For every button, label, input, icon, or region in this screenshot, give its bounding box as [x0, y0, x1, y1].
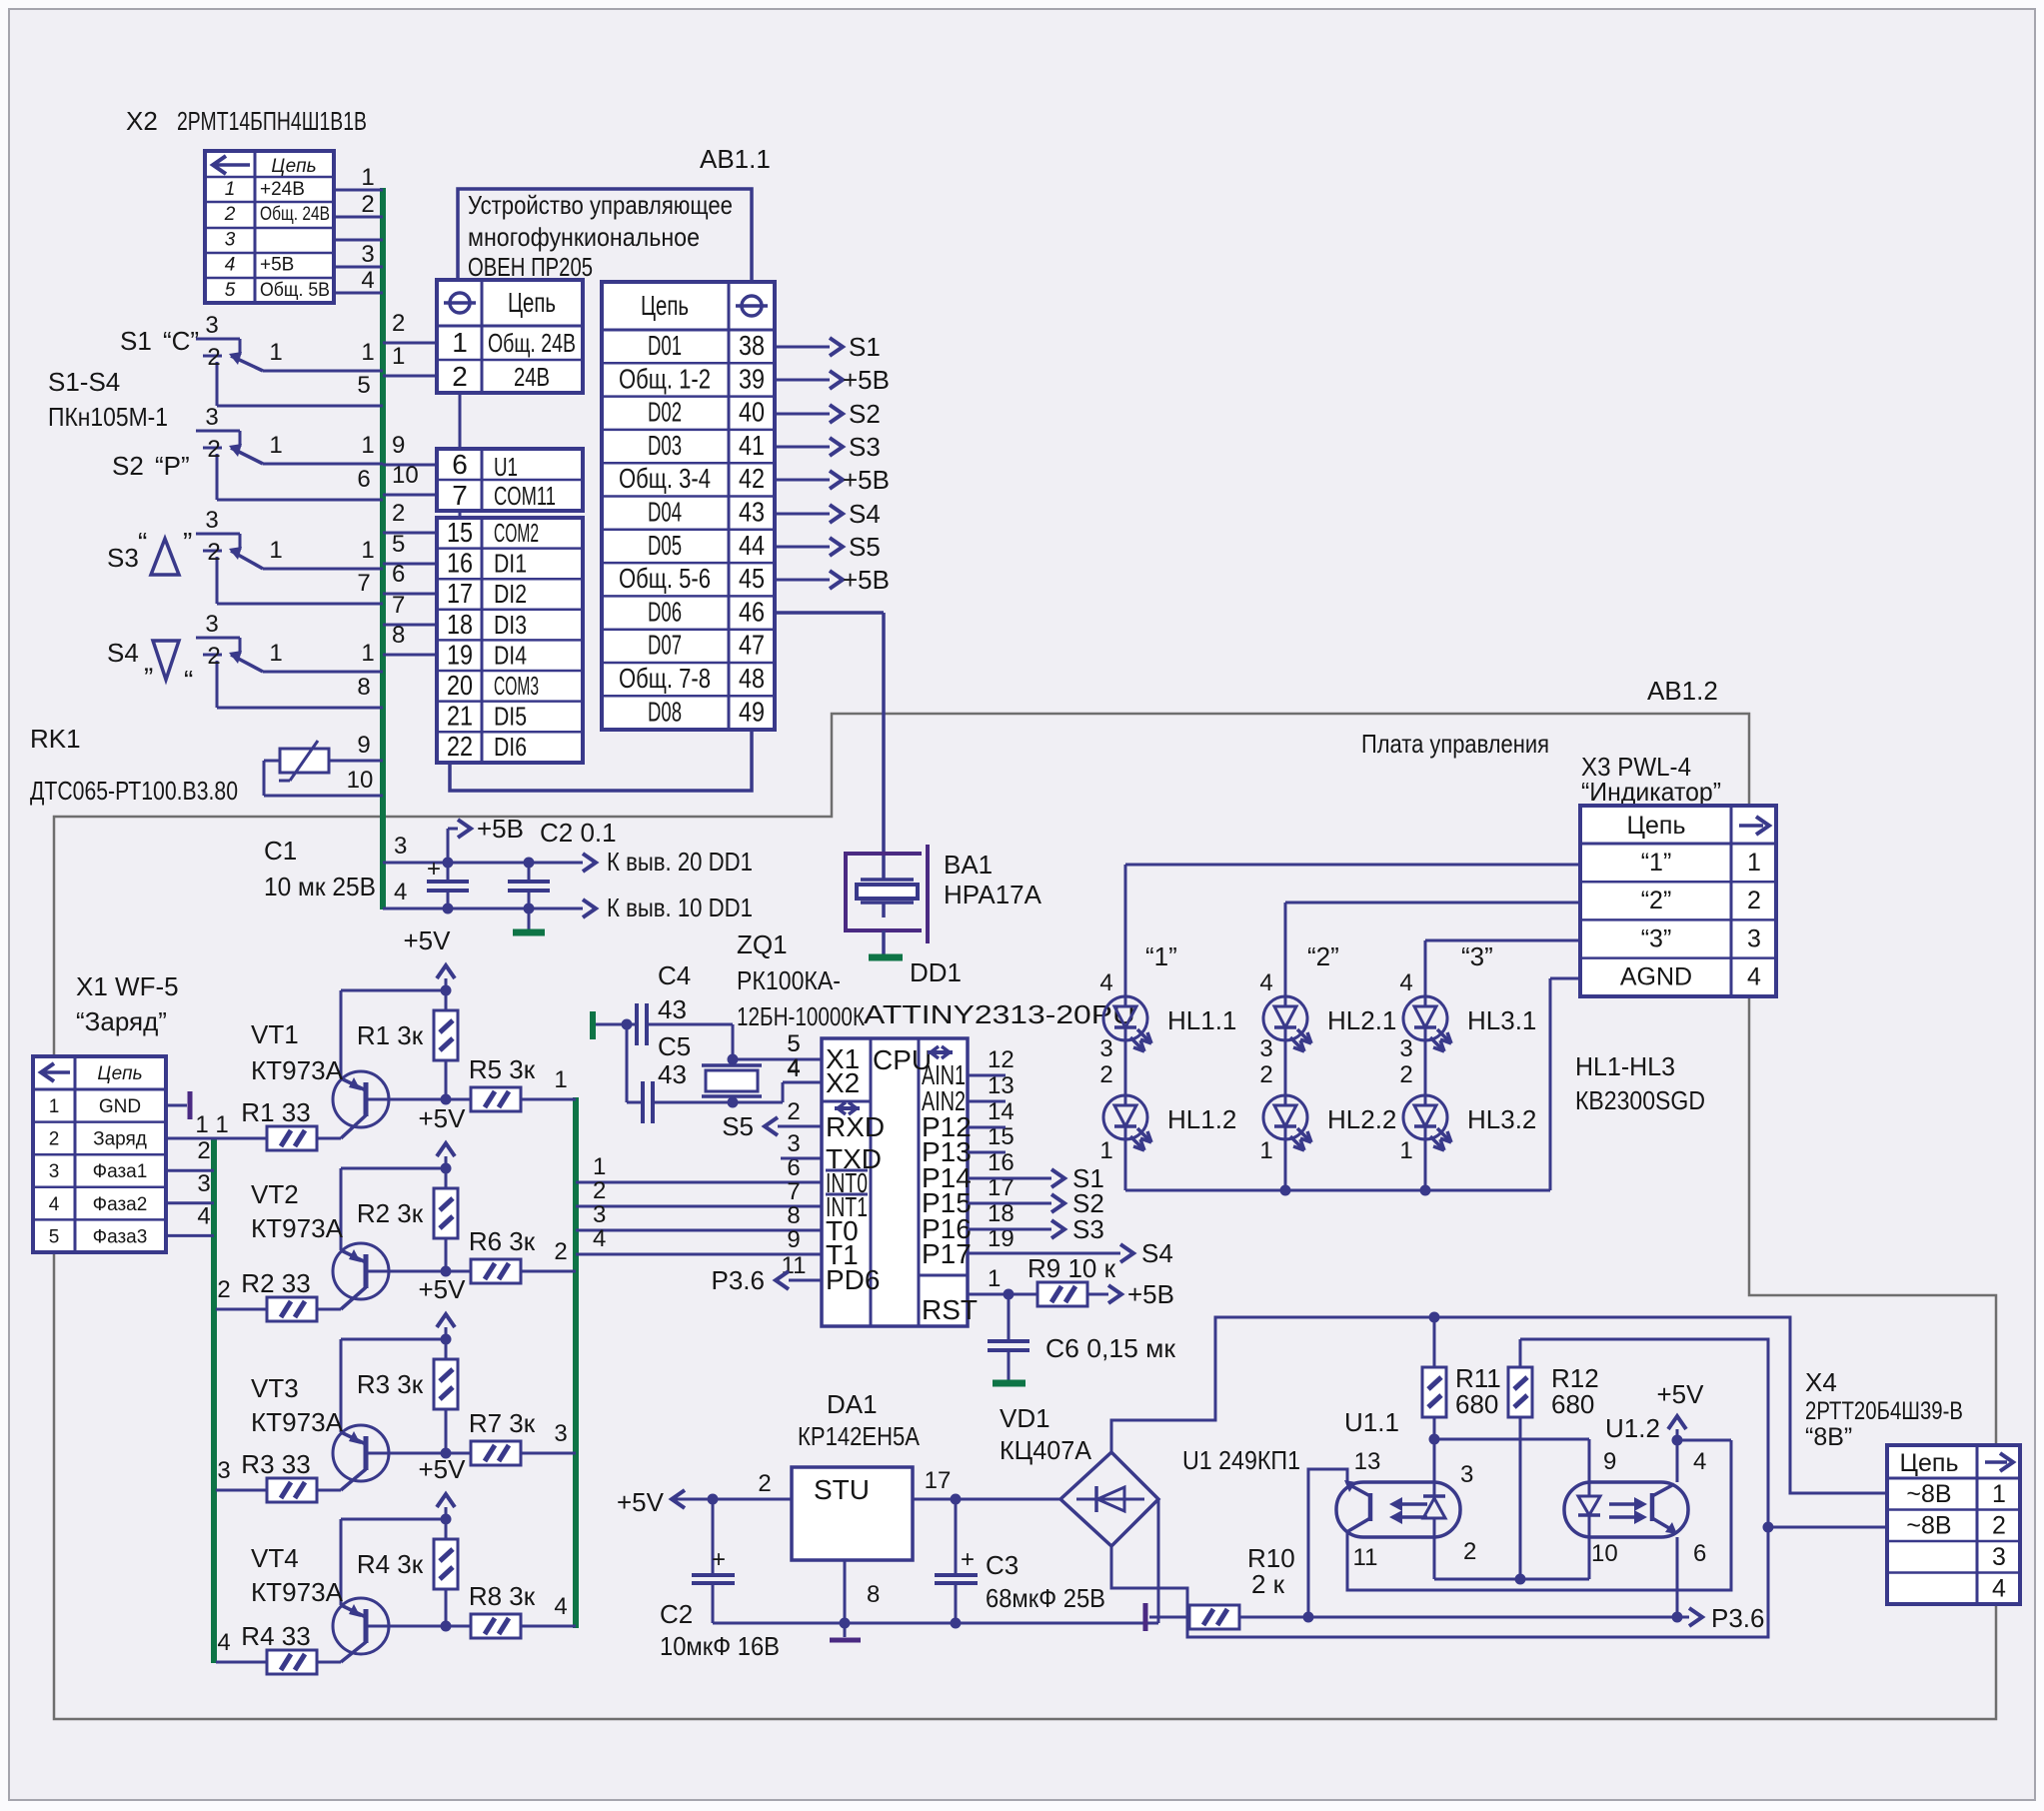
LED HL3.2 — [1403, 1095, 1447, 1139]
svg-text:ATTINY2313-20PU: ATTINY2313-20PU — [864, 999, 1135, 1029]
svg-text:“3”: “3” — [1641, 924, 1672, 952]
svg-text:Заряд: Заряд — [93, 1129, 147, 1150]
svg-text:R1 3к: R1 3к — [357, 1020, 424, 1050]
S3 up-triangle symbol — [151, 539, 179, 575]
svg-text:U1.1: U1.1 — [1344, 1407, 1399, 1437]
svg-text:КР142ЕН5А: КР142ЕН5А — [798, 1421, 921, 1451]
svg-text:S3: S3 — [849, 432, 881, 462]
svg-text:4: 4 — [1693, 1448, 1706, 1475]
svg-text:2 к: 2 к — [1251, 1569, 1285, 1599]
svg-text:3: 3 — [205, 404, 218, 431]
wire X1 GND pin 1 — [166, 1104, 187, 1107]
svg-text:3: 3 — [1992, 1543, 2006, 1571]
LED HL2.2 — [1263, 1095, 1307, 1139]
DA1 pin 8 to ground — [844, 1560, 847, 1623]
svg-text:R2 33: R2 33 — [241, 1268, 310, 1298]
+5V arrow (U1.2) — [1676, 1429, 1679, 1440]
svg-text:VT4: VT4 — [251, 1543, 299, 1573]
svg-text:R4 3к: R4 3к — [357, 1549, 424, 1579]
svg-text:10 мк 25В: 10 мк 25В — [264, 872, 376, 902]
resistor R1 3к (pull-up) — [445, 990, 448, 1010]
capacitor C2 10мкФ 16В — [712, 1499, 715, 1573]
svg-text:24В: 24В — [514, 362, 550, 392]
svg-text:3: 3 — [1399, 1035, 1412, 1062]
svg-text:2: 2 — [207, 344, 220, 371]
LED column 1 vertical wires — [1124, 1040, 1127, 1095]
svg-text:5: 5 — [392, 531, 405, 558]
svg-text:DI4: DI4 — [494, 640, 527, 670]
svg-text:DA1: DA1 — [827, 1389, 878, 1419]
svg-text:2: 2 — [392, 500, 405, 527]
svg-text:3: 3 — [205, 312, 218, 339]
svg-text:HL1-HL3: HL1-HL3 — [1575, 1051, 1675, 1081]
svg-text:10: 10 — [392, 462, 419, 489]
svg-text:HL3.1: HL3.1 — [1467, 1005, 1536, 1035]
svg-text:Р3.6: Р3.6 — [712, 1265, 766, 1295]
svg-text:S4: S4 — [849, 499, 881, 529]
svg-text:D07: D07 — [648, 630, 682, 661]
svg-text:AB1.2: AB1.2 — [1647, 676, 1718, 706]
LED HL1.1 — [1103, 996, 1147, 1040]
svg-text:COM11: COM11 — [494, 481, 556, 511]
svg-text:ZQ1: ZQ1 — [737, 929, 788, 959]
svg-text:DI3: DI3 — [494, 610, 527, 640]
wire DA1 pin17 to bridge — [913, 1498, 1060, 1501]
switch S1 — [196, 338, 240, 341]
svg-text:S2: S2 — [112, 451, 144, 481]
wire RK1 pin 10 to bus — [263, 761, 266, 796]
X2 header arrow — [216, 163, 250, 167]
link wire between tables — [459, 393, 462, 449]
svg-text:3: 3 — [205, 611, 218, 638]
svg-text:2: 2 — [207, 539, 220, 566]
svg-text:X2: X2 — [126, 106, 158, 136]
svg-text:42: 42 — [739, 463, 765, 494]
svg-text:680: 680 — [1455, 1389, 1498, 1419]
svg-text:VD1: VD1 — [1000, 1403, 1050, 1433]
svg-text:2: 2 — [224, 204, 236, 225]
LED designator labels — [1145, 941, 1536, 1134]
AC leg A: bridge top to X4 pin 1 — [1111, 1317, 1887, 1493]
+5В tap arrow — [447, 829, 450, 863]
svg-text:D05: D05 — [648, 530, 682, 561]
svg-text:RK1: RK1 — [30, 724, 81, 754]
svg-text:R5 3к: R5 3к — [469, 1054, 536, 1084]
svg-text:Цепь: Цепь — [1627, 812, 1686, 840]
svg-text:КТ973А: КТ973А — [251, 1407, 344, 1437]
svg-text:2: 2 — [758, 1470, 771, 1497]
svg-text:1: 1 — [269, 537, 282, 564]
svg-text:С5: С5 — [658, 1031, 691, 1061]
svg-text:VT2: VT2 — [251, 1179, 299, 1209]
svg-text:1: 1 — [361, 339, 374, 366]
svg-text:2: 2 — [197, 1137, 210, 1164]
svg-text:S5: S5 — [722, 1111, 754, 1141]
svg-text:многофункиональное: многофункиональное — [468, 222, 700, 252]
svg-text:4: 4 — [787, 1054, 800, 1081]
svg-text:R3 3к: R3 3к — [357, 1369, 424, 1399]
S4 down-triangle symbol — [153, 641, 179, 680]
switch S4 — [196, 637, 240, 640]
svg-text:4: 4 — [1399, 969, 1412, 996]
svg-text:+5В: +5В — [843, 565, 890, 595]
LED HL3.1 — [1403, 996, 1447, 1040]
svg-text:VT1: VT1 — [251, 1019, 299, 1049]
svg-text:AGND: AGND — [1620, 963, 1692, 991]
svg-text:BA1: BA1 — [944, 850, 993, 880]
svg-text:1: 1 — [392, 343, 405, 370]
svg-text:1: 1 — [554, 1066, 567, 1093]
svg-text:Цепь: Цепь — [271, 156, 316, 177]
svg-text:U1.2: U1.2 — [1605, 1413, 1660, 1443]
PD6 wire to Р3.6 — [789, 1279, 822, 1282]
svg-text:VT3: VT3 — [251, 1373, 299, 1403]
svg-text:4: 4 — [394, 879, 407, 905]
svg-text:“1”: “1” — [1145, 941, 1177, 971]
svg-text:D03: D03 — [648, 430, 682, 461]
svg-text:RST: RST — [922, 1294, 978, 1325]
svg-text:8: 8 — [787, 1202, 800, 1229]
svg-text:6: 6 — [452, 449, 468, 480]
svg-text:5: 5 — [49, 1226, 60, 1247]
capacitor C1 (electrolytic) — [443, 858, 454, 869]
AC leg B: bridge bottom to X4 pin 2 / R12 — [1111, 1339, 1768, 1637]
svg-text:КЦ407А: КЦ407А — [1000, 1435, 1092, 1465]
svg-text:2: 2 — [452, 361, 468, 392]
svg-text:Общ. 5-6: Общ. 5-6 — [619, 563, 711, 594]
transistor VT4 КТ973А — [333, 1598, 389, 1654]
svg-text:13: 13 — [1354, 1448, 1381, 1475]
svg-text:10: 10 — [347, 767, 374, 794]
svg-text:45: 45 — [739, 563, 765, 594]
svg-text:2: 2 — [1747, 887, 1761, 914]
svg-text:3: 3 — [394, 833, 407, 860]
svg-text:7: 7 — [392, 592, 405, 619]
connector X4 table — [1887, 1445, 2020, 1604]
svg-text:ОВЕН ПР205: ОВЕН ПР205 — [468, 252, 593, 282]
svg-text:+5В: +5В — [1127, 1279, 1174, 1309]
svg-text:S4: S4 — [1141, 1238, 1173, 1268]
svg-text:5: 5 — [225, 280, 236, 301]
wire RK1 pin 9 to bus — [329, 760, 383, 763]
svg-text:2: 2 — [554, 1238, 567, 1265]
AIN/P1x stubs — [968, 1074, 1006, 1077]
resistor R4 3к (pull-up) — [445, 1519, 448, 1539]
bus exit wires to OVEN PR205 — [383, 342, 437, 345]
svg-text:1: 1 — [361, 164, 374, 191]
svg-text:1: 1 — [225, 179, 236, 200]
svg-text:“2”: “2” — [1641, 887, 1672, 914]
svg-text:17: 17 — [447, 578, 473, 609]
svg-text:+5V: +5V — [1657, 1379, 1705, 1409]
TXD stub — [781, 1157, 822, 1160]
PR205 output table (pins 38-49) — [602, 282, 775, 730]
wire R10 to Р3.6 arrow — [1308, 1616, 1662, 1619]
svg-text:12БН-10000К: 12БН-10000К — [737, 1001, 865, 1031]
svg-text:2: 2 — [593, 1177, 606, 1204]
svg-text:“С”: “С” — [163, 326, 199, 356]
svg-text:HL1.1: HL1.1 — [1167, 1005, 1236, 1035]
svg-text:1: 1 — [1259, 1137, 1272, 1164]
capacitor C2 — [524, 858, 535, 869]
resistor R11 680 — [1433, 1317, 1436, 1367]
svg-text:2: 2 — [1399, 1061, 1412, 1088]
chassis ground bar (X1 GND) — [188, 1091, 193, 1119]
svg-text:R6 3к: R6 3к — [469, 1226, 536, 1256]
svg-text:HL2.1: HL2.1 — [1327, 1005, 1396, 1035]
svg-text:Плата управления: Плата управления — [1361, 729, 1549, 759]
svg-text:R3 33: R3 33 — [241, 1449, 310, 1479]
svg-text:C2: C2 — [660, 1599, 693, 1629]
svg-text:DI2: DI2 — [494, 579, 527, 609]
wire ZQ1 to X1 pin — [733, 1058, 822, 1061]
connector X1 table — [33, 1056, 166, 1252]
svg-text:S3: S3 — [1072, 1214, 1104, 1244]
wire harness bus 3 (VT outputs to CPU) — [573, 1097, 579, 1628]
svg-text:16: 16 — [447, 548, 473, 579]
svg-text:1: 1 — [1099, 1137, 1112, 1164]
ground (buzzer) — [869, 954, 903, 961]
LED column 2 vertical wires — [1284, 1040, 1287, 1095]
wire D06 pin46 to buzzer BA1 — [775, 611, 884, 615]
PR205 input terminal table (pins 15-22) — [437, 518, 583, 763]
svg-text:41: 41 — [739, 430, 765, 461]
svg-text:Цепь: Цепь — [97, 1063, 142, 1084]
wire net 3 (+5В) from bus — [383, 862, 583, 865]
CPU left pin names — [826, 1043, 885, 1295]
LED HL2.1 — [1263, 996, 1307, 1040]
svg-text:К выв. 20 DD1: К выв. 20 DD1 — [607, 847, 753, 877]
svg-text:9: 9 — [787, 1226, 800, 1253]
svg-text:3: 3 — [1460, 1461, 1473, 1488]
svg-text:С6 0,15 мк: С6 0,15 мк — [1045, 1333, 1176, 1363]
X2 wires to bus — [334, 189, 383, 192]
wire harness bus 1 (X2/switch area) — [380, 188, 386, 909]
switch S2 — [196, 430, 240, 433]
bus 3 exit wires to CPU INT0,INT1,T0,T1 — [576, 1181, 822, 1184]
resistor R6 3к (output) — [471, 1259, 521, 1283]
svg-text:12: 12 — [988, 1046, 1015, 1073]
svg-text:20: 20 — [447, 670, 473, 701]
svg-text:R4 33: R4 33 — [241, 1621, 310, 1651]
AB1.2 control-board boundary — [54, 714, 1996, 1719]
svg-text:С2 0.1: С2 0.1 — [540, 818, 617, 848]
svg-text:РК100КА-: РК100КА- — [737, 965, 841, 995]
thermistor RK1 — [280, 749, 329, 773]
svg-text:2: 2 — [787, 1098, 800, 1125]
svg-text:S4: S4 — [107, 638, 139, 668]
svg-text:3: 3 — [593, 1201, 606, 1228]
svg-text:COM3: COM3 — [494, 671, 539, 701]
link wire between tables — [459, 511, 462, 518]
svg-text:48: 48 — [739, 663, 765, 694]
svg-text:R9 10 к: R9 10 к — [1027, 1253, 1116, 1283]
svg-text:STU: STU — [814, 1474, 870, 1505]
transistor VT2 КТ973А — [333, 1243, 389, 1299]
svg-text:19: 19 — [447, 639, 473, 670]
LED column 3 vertical wires — [1424, 1040, 1427, 1095]
svg-text:1: 1 — [269, 432, 282, 459]
svg-text:3: 3 — [217, 1457, 230, 1484]
svg-text:R1 33: R1 33 — [241, 1097, 310, 1127]
CPU DD1 box — [822, 1038, 968, 1326]
svg-text:Цепь: Цепь — [641, 290, 689, 321]
svg-text:38: 38 — [739, 330, 765, 361]
svg-text:D06: D06 — [648, 596, 682, 627]
svg-text:+5V: +5V — [419, 1454, 467, 1484]
svg-text:9: 9 — [357, 732, 370, 759]
svg-text:2: 2 — [1099, 1061, 1112, 1088]
wires X1 phases to bus 2 — [166, 1169, 214, 1172]
svg-text:7: 7 — [787, 1178, 800, 1205]
svg-text:1: 1 — [361, 537, 374, 564]
svg-text:2РТТ20Б4Ш39-В: 2РТТ20Б4Ш39-В — [1805, 1397, 1963, 1425]
svg-text:D08: D08 — [648, 696, 682, 727]
U1.2 pin4 to +5V — [1676, 1440, 1679, 1482]
svg-text:4: 4 — [1099, 969, 1112, 996]
svg-text:4: 4 — [361, 267, 374, 294]
svg-text:8: 8 — [392, 622, 405, 649]
svg-text:4: 4 — [1747, 963, 1761, 991]
U1.1 pin11 wire to +5V loop — [1347, 1440, 1731, 1590]
svg-text:”: ” — [183, 527, 192, 558]
svg-text:+5В: +5В — [843, 365, 890, 395]
svg-text:КВ2300SGD: КВ2300SGD — [1575, 1085, 1705, 1115]
svg-text:39: 39 — [739, 363, 765, 394]
LED HL1.2 — [1103, 1095, 1147, 1139]
svg-text:S1-S4: S1-S4 — [48, 367, 120, 397]
RXD wire to S5 — [778, 1125, 822, 1128]
+5V arrow (VT1 emitter) — [445, 978, 448, 990]
svg-text:D04: D04 — [648, 497, 682, 528]
svg-text:GND: GND — [99, 1096, 141, 1117]
svg-text:7: 7 — [452, 480, 468, 511]
svg-text:КТ973А: КТ973А — [251, 1055, 344, 1085]
svg-text:Фаза2: Фаза2 — [93, 1194, 148, 1215]
svg-text:+24В: +24В — [260, 179, 305, 200]
svg-text:Общ. 7-8: Общ. 7-8 — [619, 663, 711, 694]
svg-text:3: 3 — [1747, 924, 1761, 952]
capacitor C6 — [1008, 1294, 1011, 1341]
svg-text:DI1: DI1 — [494, 549, 527, 579]
U1.1 pin13 wire to R10 node — [1308, 1469, 1347, 1617]
svg-text:22: 22 — [447, 731, 473, 762]
svg-text:X2: X2 — [826, 1067, 860, 1098]
svg-text:15: 15 — [447, 517, 473, 548]
svg-text:Устройство управляющее: Устройство управляющее — [468, 190, 733, 220]
svg-text:“2”: “2” — [1307, 941, 1339, 971]
svg-text:“: “ — [138, 527, 147, 558]
resistor R2 33 (input) — [216, 1308, 267, 1311]
svg-text:“Р”: “Р” — [155, 451, 190, 481]
svg-text:~8В: ~8В — [1906, 1480, 1951, 1508]
svg-text:DI6: DI6 — [494, 732, 527, 762]
svg-text:R7 3к: R7 3к — [469, 1408, 536, 1438]
svg-text:„: „ — [144, 646, 153, 677]
svg-text:ДТС065-РТ100.В3.80: ДТС065-РТ100.В3.80 — [30, 776, 238, 806]
svg-text:2: 2 — [361, 191, 374, 218]
svg-text:+5В: +5В — [477, 814, 524, 844]
svg-text:21: 21 — [447, 701, 473, 732]
capacitor C4 — [596, 1023, 637, 1026]
svg-text:Общ. 3-4: Общ. 3-4 — [619, 463, 711, 494]
svg-text:НРА17А: НРА17А — [944, 880, 1042, 909]
svg-text:“8В”: “8В” — [1805, 1423, 1852, 1451]
regulator DA1 box — [792, 1467, 913, 1560]
svg-text:2: 2 — [1463, 1538, 1476, 1565]
svg-text:2: 2 — [392, 310, 405, 337]
svg-text:4: 4 — [217, 1629, 230, 1656]
switch S3 — [196, 533, 240, 536]
svg-text:4: 4 — [49, 1194, 60, 1215]
CPU right pin numbers — [988, 1046, 1015, 1292]
svg-text:Общ. 5В: Общ. 5В — [260, 280, 330, 301]
svg-text:+5V: +5V — [419, 1274, 467, 1304]
AGND return wire — [1550, 977, 1580, 980]
svg-text:1: 1 — [988, 1265, 1001, 1292]
svg-text:2: 2 — [1259, 1061, 1272, 1088]
svg-text:2: 2 — [207, 436, 220, 463]
svg-text:43: 43 — [739, 497, 765, 528]
svg-text:3: 3 — [361, 241, 374, 268]
svg-text:3: 3 — [554, 1420, 567, 1447]
svg-text:S1: S1 — [849, 332, 881, 362]
svg-text:4: 4 — [197, 1202, 210, 1229]
svg-text:1: 1 — [361, 432, 374, 459]
svg-text:“Заряд”: “Заряд” — [76, 1006, 167, 1036]
svg-text:U1: U1 — [494, 452, 518, 482]
svg-text:1: 1 — [269, 339, 282, 366]
P14..P16 wires to S1..S3 — [968, 1177, 1051, 1180]
svg-text:COM2: COM2 — [494, 518, 539, 548]
svg-text:Цепь: Цепь — [508, 287, 556, 318]
wire harness bus 2 (X1 phase lines) — [211, 1138, 217, 1663]
svg-text:2: 2 — [49, 1129, 60, 1150]
svg-text:680: 680 — [1551, 1389, 1594, 1419]
svg-text:D02: D02 — [648, 397, 682, 428]
wire U1.1 pin2 / R12 / U1.2 pin10 — [1434, 1578, 1589, 1581]
svg-text:S2: S2 — [849, 399, 881, 429]
svg-text:1: 1 — [215, 1111, 228, 1138]
svg-text:DI5: DI5 — [494, 702, 527, 732]
svg-text:Фаза1: Фаза1 — [93, 1161, 148, 1182]
svg-text:43: 43 — [658, 1059, 687, 1089]
svg-text:S1: S1 — [120, 326, 152, 356]
buzzer BA1 — [846, 854, 922, 930]
X2 pin numbers and circuit names — [224, 179, 330, 301]
wires X3 pins to LED columns — [1125, 864, 1580, 867]
ground (C6) — [993, 1380, 1025, 1387]
wire R11 node to U1.2 pin9 — [1434, 1438, 1589, 1441]
svg-text:4: 4 — [593, 1225, 606, 1252]
svg-text:R8 3к: R8 3к — [469, 1581, 536, 1611]
+5V arrow (VT4 emitter) — [445, 1507, 448, 1519]
resistor R5 3к (output) — [471, 1087, 521, 1111]
connector X3 table — [1580, 806, 1776, 996]
ground (C2) — [513, 929, 545, 936]
svg-text:5: 5 — [787, 1030, 800, 1057]
svg-text:44: 44 — [739, 530, 765, 561]
PR205 power terminal table (pins 1,2) — [437, 280, 583, 393]
svg-text:X1 WF-5: X1 WF-5 — [76, 971, 179, 1001]
svg-text:4: 4 — [1992, 1575, 2006, 1603]
svg-text:3: 3 — [225, 229, 236, 250]
svg-text:1: 1 — [1992, 1480, 2006, 1508]
svg-text:S3: S3 — [107, 543, 139, 573]
svg-text:+: + — [961, 1546, 975, 1573]
svg-text:18: 18 — [447, 609, 473, 640]
resistor R4 33 (input) — [216, 1661, 267, 1664]
